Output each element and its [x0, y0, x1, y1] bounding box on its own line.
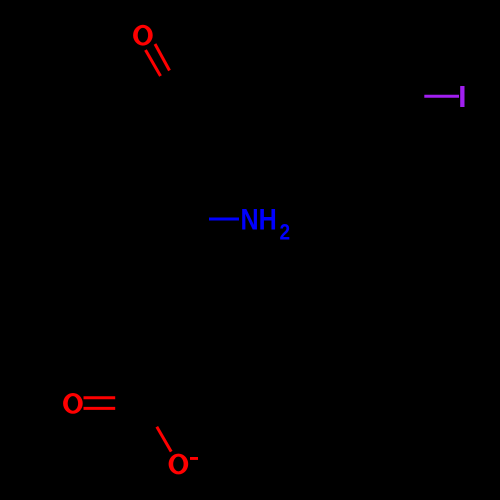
bond C-O⁻ (single, oxygen half)	[157, 427, 171, 452]
minus charge on O⁻	[190, 457, 198, 460]
double bond C=O (carboxylate), top line	[84, 396, 116, 399]
double bond C=O (ketone), line 1	[146, 50, 161, 76]
atom label I (iodine)	[460, 86, 464, 107]
bond C-N (amine half)	[209, 218, 239, 221]
svg-text:NH: NH	[241, 204, 277, 237]
double bond C=O (carboxylate), bottom line	[84, 407, 116, 410]
bond C-I (iodine half)	[424, 95, 459, 98]
atom label O⁻ (carboxylate oxygen)	[169, 454, 189, 475]
atom label O (carboxylate double-bond oxygen)	[63, 393, 83, 414]
double bond C=O (ketone), line 2	[155, 44, 170, 71]
svg-text:2: 2	[280, 219, 291, 244]
atom label O (ketone oxygen, top)	[133, 25, 153, 46]
